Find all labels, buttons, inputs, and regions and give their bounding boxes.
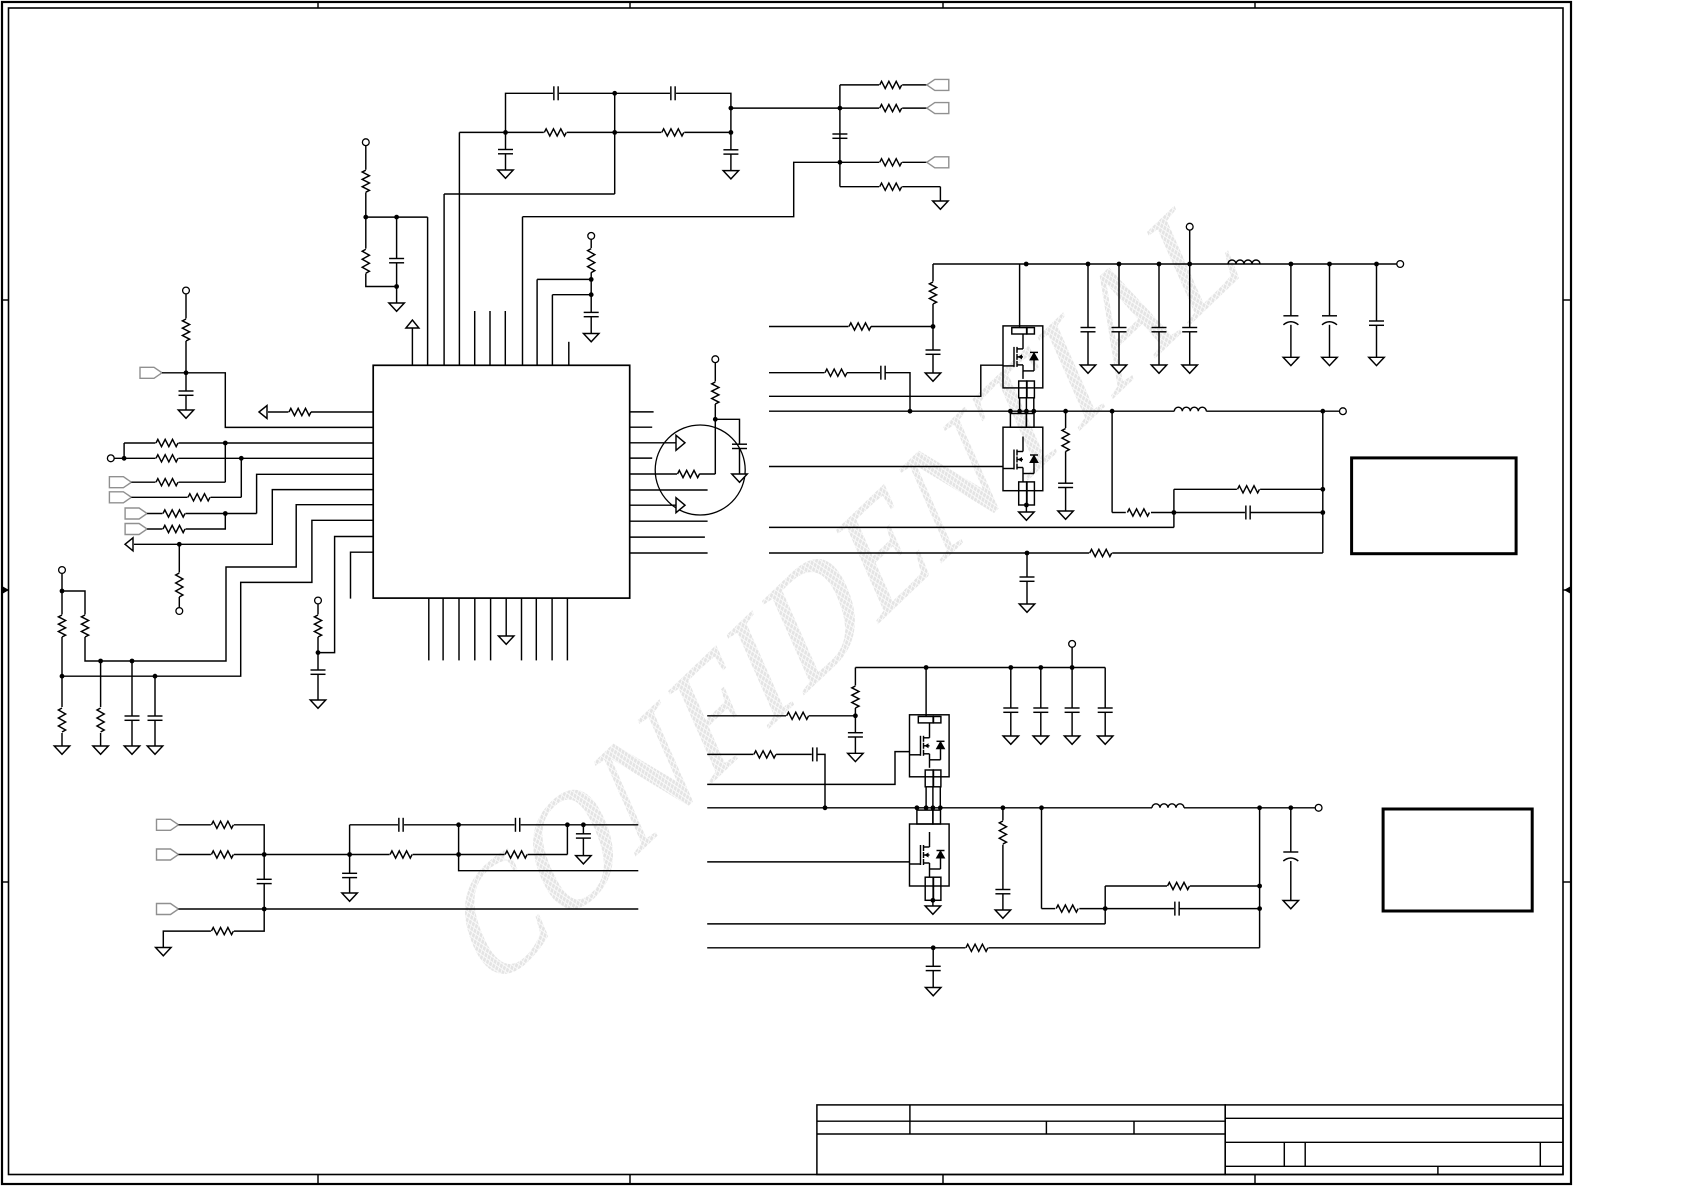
- wire link x225: [224, 443, 226, 482]
- wire C9 to ground: [131, 720, 133, 746]
- resistor R1b: [661, 127, 684, 137]
- wire C10 to ground: [154, 720, 156, 746]
- ground below C3: [498, 170, 514, 178]
- title block right sub-divider a: [1283, 1142, 1285, 1166]
- node q6: [1039, 805, 1044, 810]
- wire Q1 drain: [1019, 264, 1021, 328]
- wire C17 down: [349, 878, 351, 893]
- node rail d6: [1289, 262, 1294, 267]
- wire T2 down: [590, 240, 592, 249]
- wire C38 gnd: [932, 971, 934, 988]
- capacitor C2: [670, 86, 676, 100]
- wire x132 down: [131, 661, 133, 716]
- wire tag row D: [840, 186, 941, 188]
- capacitor C19: [1081, 328, 1096, 332]
- wire row6: [147, 514, 225, 530]
- right border center arrow: [1563, 586, 1571, 594]
- ground g12: [1058, 511, 1074, 519]
- capacitor C8: [179, 391, 194, 395]
- resistor R10: [289, 407, 312, 417]
- capacitor C17: [342, 873, 357, 877]
- wire FB vertical: [1173, 489, 1175, 527]
- buffer arrow b: [676, 498, 685, 513]
- resistor R4: [586, 248, 596, 273]
- wire R39 to C35: [776, 753, 813, 755]
- ground row D: [933, 201, 949, 209]
- terminal T2: [588, 233, 595, 240]
- wire left link rows1-2: [123, 443, 125, 458]
- wire T1 down: [365, 146, 367, 170]
- wire R40-C36: [1002, 845, 1004, 890]
- wire j31 down: [1026, 553, 1028, 577]
- wire j6 to ground: [396, 287, 398, 304]
- Q2 source tab b: [1027, 482, 1034, 505]
- Q4 drain tab b: [933, 810, 941, 824]
- node p5: [1063, 409, 1068, 414]
- node rail d5: [1187, 262, 1192, 267]
- node j4: [363, 215, 368, 220]
- wire j20 to U1: [318, 537, 373, 653]
- resistor R37: [850, 686, 860, 709]
- wire rail left column: [932, 264, 934, 282]
- wire FB2 drop: [1041, 808, 1043, 909]
- inductor L2: [1174, 407, 1206, 411]
- node j30: [1172, 510, 1177, 515]
- node rail2 d1: [924, 665, 929, 670]
- capacitor C10: [148, 716, 163, 720]
- ground below C32: [1033, 736, 1049, 744]
- bottom border zone ticks: [318, 1175, 1255, 1185]
- wire C3 to ground: [505, 154, 507, 170]
- node j15: [60, 589, 65, 594]
- wire input L3 gate1: [769, 365, 1003, 396]
- resistor R3: [361, 249, 371, 274]
- resistor R31: [849, 321, 872, 331]
- terminal T1: [362, 139, 369, 146]
- wire row5: [147, 513, 257, 515]
- wire railcap4 down: [1189, 264, 1191, 328]
- net arrow left pin: [259, 406, 267, 419]
- wire bus2: [62, 520, 373, 676]
- wire tag row A: [840, 84, 927, 86]
- capacitor C15: [515, 818, 521, 832]
- node p4b: [1031, 409, 1036, 414]
- wire U1 top pin 9: [536, 279, 538, 365]
- capacitor C4: [723, 150, 738, 154]
- wire U1 top pin 10: [551, 295, 553, 366]
- wire right row7: [630, 504, 677, 506]
- capacitor C23 polarized: [1283, 316, 1298, 325]
- wire x458 down: [459, 825, 639, 871]
- wire R21 to ground: [100, 733, 102, 746]
- ground below C24: [1322, 357, 1338, 365]
- connector tag A: [927, 79, 949, 90]
- ground g8: [576, 856, 592, 864]
- title block divider b: [1045, 1121, 1047, 1134]
- wire Q4 source gnd: [932, 900, 934, 906]
- capacitor C38: [926, 966, 941, 970]
- node j6: [394, 284, 399, 289]
- wire rail2 left col: [854, 668, 856, 687]
- wire input L1b: [707, 715, 786, 717]
- right border zone ticks: [1563, 300, 1571, 882]
- node q3: [924, 805, 929, 810]
- ground below C34: [1097, 736, 1113, 744]
- wire tagM1: [179, 825, 265, 855]
- wire Q3 drain: [925, 668, 927, 717]
- node j16: [60, 674, 65, 679]
- resistor R40: [998, 821, 1008, 845]
- wire input L5 gate2: [769, 466, 1003, 468]
- ground below C20: [1111, 365, 1127, 373]
- node j24: [456, 852, 461, 857]
- capacitor C22: [1182, 328, 1197, 332]
- resistor R30: [928, 282, 938, 305]
- wire tag row B: [840, 107, 927, 109]
- resistor R14: [188, 492, 211, 502]
- node j2: [612, 130, 617, 135]
- connector tag M3: [157, 904, 179, 915]
- wire mid row y132: [459, 131, 731, 133]
- wire phase to term: [1206, 410, 1339, 412]
- ground g4: [147, 746, 163, 754]
- wire U1 bottom pin 8 stub: [551, 598, 553, 660]
- node j34: [931, 945, 936, 950]
- node j29: [931, 324, 936, 329]
- capacitor C35: [812, 747, 818, 761]
- capacitor C37: [1174, 902, 1180, 916]
- wire R37 down: [854, 708, 856, 733]
- capacitor C36: [995, 890, 1010, 894]
- wire C16 down: [582, 838, 584, 856]
- wire x715 vertical: [714, 419, 716, 474]
- resistor R20: [80, 615, 90, 638]
- node j25: [262, 907, 267, 912]
- title block row line 2: [817, 1133, 1225, 1135]
- wire R17 to T5: [178, 597, 180, 607]
- resistor R17: [174, 573, 184, 598]
- ground g16: [995, 910, 1011, 918]
- wire right row1 stub: [630, 411, 654, 413]
- wire C28 to p8: [1250, 512, 1323, 514]
- capacitor C1: [553, 86, 559, 100]
- terminal T7: [315, 597, 322, 604]
- wire j3-C4: [730, 132, 732, 149]
- terminal T9: [1186, 223, 1193, 230]
- wire R34 to j30: [1151, 512, 1174, 514]
- wire U1 bottom pin 2 stub: [442, 598, 444, 660]
- wire R32 to C26: [847, 372, 881, 374]
- node j5: [394, 215, 399, 220]
- wire vert x614 93-194: [614, 93, 616, 194]
- terminal T5: [176, 608, 183, 615]
- wire R22 down: [317, 637, 319, 670]
- terminal T4: [107, 455, 114, 462]
- node j1: [503, 130, 508, 135]
- capacitor C29: [1020, 577, 1035, 581]
- wire input L7b: [707, 947, 1259, 949]
- top border zone ticks: [318, 2, 1255, 8]
- wire R9 down: [185, 341, 187, 373]
- node rail2 d4: [1070, 665, 1075, 670]
- wire R38 to j32: [809, 715, 856, 717]
- node j31: [1025, 551, 1030, 556]
- Q3 source tab b: [934, 770, 941, 787]
- ground g7: [156, 948, 172, 956]
- wire U1 top pin 2: [427, 217, 429, 365]
- node rail d2: [1086, 262, 1091, 267]
- wire j23-C17: [349, 855, 351, 874]
- Q1 drain tab b: [1027, 328, 1034, 334]
- terminal T10: [1397, 261, 1404, 268]
- resistor R33: [1061, 428, 1071, 452]
- wire j5-C5: [396, 217, 398, 258]
- wire row1 to U1: [124, 442, 373, 444]
- Q2 drain tab b: [1026, 414, 1034, 428]
- wire tagM2 row: [179, 854, 568, 856]
- wire T9 to rail: [1189, 230, 1191, 264]
- wire rail2cap3 gnd: [1071, 712, 1073, 736]
- wire bus1: [85, 505, 373, 661]
- capacitor C25: [1369, 321, 1384, 325]
- wire top loop upper rail: [506, 93, 731, 132]
- ground g1: [54, 746, 70, 754]
- ground below C19: [1080, 365, 1096, 373]
- resistor R38: [786, 711, 809, 721]
- node p6: [1110, 409, 1115, 414]
- wire right row4 stub: [630, 457, 653, 459]
- terminal T12: [1069, 641, 1076, 648]
- title block right row 3: [1225, 1165, 1563, 1167]
- node j11: [122, 456, 127, 461]
- node q7: [1257, 805, 1262, 810]
- resistor R15: [163, 508, 186, 518]
- node j28: [581, 822, 586, 827]
- resistor R9: [181, 319, 191, 342]
- node j13: [223, 511, 228, 516]
- capacitor C31: [1003, 708, 1018, 712]
- resistor R24: [710, 382, 720, 405]
- wire C37 to q10: [1179, 908, 1259, 910]
- node rail d7: [1327, 262, 1332, 267]
- wire railcap3 gnd: [1158, 332, 1160, 365]
- ground below C39: [1283, 901, 1299, 909]
- wire input L6: [769, 526, 1174, 528]
- wire tag to corner: [162, 373, 373, 428]
- node j14: [177, 542, 182, 547]
- wire phase line: [769, 410, 1174, 412]
- capacitor C24 polarized: [1322, 316, 1337, 325]
- terminal T8: [712, 356, 719, 363]
- title block row line 1: [817, 1120, 1225, 1122]
- resistor R41: [1056, 904, 1079, 914]
- wire R24 down: [714, 404, 716, 419]
- Q3 drain tab b: [934, 717, 941, 723]
- Q4 drain tab a: [917, 810, 933, 824]
- capacitor C9: [125, 716, 140, 720]
- MOSFET Q3 package box: [910, 715, 950, 777]
- connector tag row5: [125, 508, 147, 519]
- wire FB row: [1112, 512, 1126, 514]
- wire Q2 source gnd: [1025, 505, 1027, 512]
- wire j9-C8: [185, 373, 187, 391]
- resistor R42: [1167, 881, 1190, 891]
- wire rail2cap1 down: [1010, 668, 1012, 709]
- node j17: [98, 659, 103, 664]
- title block right section frame: [1225, 1105, 1563, 1175]
- wire railcap2 down: [1118, 264, 1120, 328]
- connector tag row6: [125, 524, 147, 535]
- node j18: [130, 659, 135, 664]
- wire row7: [134, 490, 373, 545]
- wire right row9 stub: [630, 536, 705, 538]
- ground below C6: [583, 334, 599, 342]
- connector tag row3: [109, 477, 131, 488]
- wire upper row: [350, 824, 639, 826]
- wire input L1: [769, 326, 849, 328]
- node rail2 d2: [1008, 665, 1013, 670]
- wire polcap2 gnd: [1329, 325, 1331, 358]
- wire railcap3 down: [1158, 264, 1160, 328]
- Q4 source tab a: [925, 877, 933, 900]
- node q1: [823, 805, 828, 810]
- wire U1 top pin 5 stub: [474, 311, 476, 365]
- Q3 source tab a: [925, 770, 933, 787]
- wire C35 to phase2: [817, 754, 825, 807]
- node j27: [565, 822, 570, 827]
- wire snubber1: [1065, 411, 1067, 429]
- wire VIN rail 2: [855, 667, 1105, 669]
- wire outcap down: [1376, 264, 1378, 321]
- Q1 drain tab a: [1012, 328, 1027, 334]
- wire C26 to phase: [885, 373, 910, 412]
- capacitor C21: [1152, 328, 1167, 332]
- resistor R26: [211, 849, 234, 859]
- wire input L2: [769, 372, 825, 374]
- wire U1 bottom pin 1 stub: [428, 598, 430, 660]
- node p4: [1024, 409, 1029, 414]
- terminal T13: [1315, 804, 1322, 811]
- connector tag M2: [157, 849, 179, 860]
- ground g3: [124, 746, 140, 754]
- wire FB2 cap row: [1105, 908, 1175, 910]
- capacitor C14: [398, 818, 404, 832]
- wire x100 down: [100, 661, 102, 707]
- oscillator circle: [655, 425, 745, 515]
- wire C36 gnd: [1002, 894, 1004, 910]
- capacitor C6: [584, 312, 599, 316]
- wire phase2 to term: [1184, 807, 1315, 809]
- capacitor C13: [257, 879, 272, 883]
- wire R33-C27: [1065, 451, 1067, 483]
- wire arrow to R10: [268, 411, 289, 413]
- ground at U1 bottom pin: [498, 636, 514, 644]
- wire output2 vertical: [1259, 808, 1261, 948]
- wire U1 bottom pin 9 stub: [566, 598, 568, 660]
- wire row2 to U1: [114, 457, 373, 459]
- wire tagM3 row: [179, 908, 639, 910]
- resistor R29: [211, 926, 234, 936]
- node p7: [1320, 409, 1325, 414]
- ground below C21: [1151, 365, 1167, 373]
- wire polcap3 gnd: [1290, 861, 1292, 901]
- wire U1 top pin 8: [522, 217, 524, 366]
- ground g2: [93, 746, 109, 754]
- node q5: [1001, 805, 1006, 810]
- title block right sub-divider b: [1304, 1142, 1306, 1166]
- node j33: [1103, 906, 1108, 911]
- left border center arrow: [2, 586, 9, 594]
- wire R18 down: [61, 637, 63, 707]
- wire C4 to ground: [730, 154, 732, 171]
- wire R31 to j29: [871, 326, 933, 328]
- capacitor C16: [576, 834, 591, 838]
- ground below C5: [389, 303, 405, 311]
- wire C12 down: [739, 449, 741, 475]
- title block right sub-divider c: [1539, 1142, 1541, 1166]
- node p3: [1017, 409, 1022, 414]
- load box 1: [1352, 458, 1517, 554]
- ground below C25: [1369, 357, 1385, 365]
- ground g10: [925, 373, 941, 381]
- connector tag M1: [157, 819, 179, 830]
- node p8: [1320, 510, 1325, 515]
- wire row3: [131, 481, 225, 483]
- MOSFET Q4 package box: [910, 824, 950, 886]
- node q11: [1257, 884, 1262, 889]
- node top rail junction: [612, 91, 617, 96]
- wire C29 gnd: [1026, 581, 1028, 604]
- capacitor C7: [832, 134, 847, 138]
- wire FB2 upper row: [1105, 885, 1167, 887]
- wire T8 down: [714, 363, 716, 383]
- wire FB upper row: [1174, 488, 1237, 490]
- wire row4: [131, 496, 241, 498]
- ground below C4: [723, 171, 739, 179]
- wire input L5b gate2: [707, 861, 909, 863]
- node j21: [713, 417, 718, 422]
- wire tag bus vertical: [839, 85, 841, 187]
- wire x155 down: [154, 676, 156, 716]
- node q10: [1257, 906, 1262, 911]
- connector tag C: [927, 157, 949, 168]
- title block left section frame: [817, 1105, 1225, 1175]
- MOSFET Q3 symbol: [910, 723, 945, 768]
- wire rail2cap4 gnd: [1104, 712, 1106, 736]
- wire C18 down: [932, 354, 934, 373]
- node q4: [931, 805, 936, 810]
- capacitor C39 polarized: [1283, 852, 1298, 861]
- MOSFET Q2 package box: [1003, 427, 1043, 491]
- wire right row2 stub: [630, 426, 653, 428]
- title block right row 2: [1225, 1141, 1563, 1143]
- node jA: [838, 106, 843, 111]
- node j9: [184, 370, 189, 375]
- node j23: [347, 852, 352, 857]
- wire T3 down: [185, 294, 187, 319]
- wire R4 down: [590, 272, 592, 312]
- wire row5 up to U1: [257, 474, 374, 513]
- resistor R13: [156, 477, 179, 487]
- resistor R23: [677, 469, 700, 479]
- wire tag row C: [840, 161, 927, 163]
- ground below C31: [1003, 736, 1019, 744]
- wire row y108: [731, 107, 840, 109]
- wire right row6 stub: [630, 489, 708, 491]
- resistor R22: [313, 615, 323, 638]
- Q1 source tab b: [1027, 381, 1034, 398]
- MOSFET Q1 symbol: [1003, 334, 1038, 379]
